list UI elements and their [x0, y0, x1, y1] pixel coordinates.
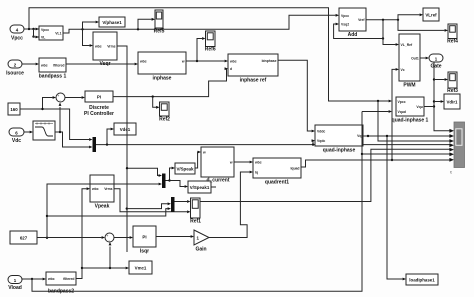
svg-text:wbc: wbc	[229, 59, 237, 63]
scope Ref3	[447, 72, 458, 94]
svg-text:Vqud: Vqud	[398, 110, 406, 114]
wire Vload to bandpass2	[22, 278, 46, 281]
svg-text:w: w	[181, 59, 185, 63]
svg-text:Out1: Out1	[411, 56, 419, 60]
wire VL1 output long line to Add	[63, 14, 339, 33]
svg-text:Vref: Vref	[358, 18, 365, 22]
svg-text:quad-inphase: quad-inphase	[323, 148, 356, 154]
svg-text:d_current: d_current	[206, 178, 229, 184]
wire Discrete PI output to inphase ref d	[113, 67, 228, 108]
wire sum2 to Isqr PI	[114, 236, 133, 239]
svg-text:Vpcc: Vpcc	[398, 100, 406, 104]
svg-text:filtered: filtered	[63, 277, 74, 281]
block PWM	[399, 34, 420, 89]
svg-text:Vpeak: Vpeak	[95, 204, 110, 210]
svg-text:Ref3: Ref3	[447, 88, 458, 94]
block V/Speak1	[188, 181, 211, 193]
wire down to loadIphase1	[386, 135, 406, 281]
block Add	[339, 8, 366, 38]
wire bandpass2 output up left column	[76, 187, 171, 278]
svg-text:Vqu: Vqu	[416, 105, 422, 109]
wire branch to mux bundle line 3	[378, 101, 454, 143]
svg-text:w: w	[202, 150, 206, 154]
svg-text:V/Speak1: V/Speak1	[190, 185, 210, 190]
svg-text:VL_Ref: VL_Ref	[401, 43, 414, 47]
wire branch to Vsqr	[83, 29, 94, 47]
wire binphase to quad-inphase Vddc	[278, 60, 315, 132]
block Vrms1	[129, 261, 152, 274]
block Gain	[194, 230, 209, 253]
wire overlay vertical crossing Vdc1	[126, 121, 128, 137]
svg-text:VL1: VL1	[55, 32, 61, 36]
block Vdc1	[114, 123, 136, 135]
svg-text:Vpcc: Vpcc	[11, 36, 23, 42]
svg-text:Add: Add	[348, 32, 358, 38]
svg-text:w: w	[229, 160, 233, 164]
scope Ref4	[447, 24, 458, 45]
svg-text:Vpcc: Vpcc	[41, 28, 49, 32]
block quadrent1	[253, 158, 301, 186]
wire mux B to Ref1	[175, 200, 191, 203]
block lowpass filter icon	[33, 121, 55, 140]
block V/Speak	[175, 163, 195, 174]
block d_current	[201, 147, 234, 184]
sum junction 1	[56, 93, 65, 103]
scope Ref5	[154, 10, 165, 35]
svg-text:Vdir1: Vdir1	[447, 99, 459, 104]
block Vsqr	[93, 32, 117, 67]
port Vpcc (4)	[10, 25, 24, 42]
block Discrete PI Controller	[84, 91, 114, 117]
svg-text:d: d	[230, 67, 232, 71]
mux B	[171, 197, 175, 212]
wire down to mux A input 2	[46, 183, 171, 239]
block inphase ref	[228, 54, 278, 84]
svg-text:Vq: Vq	[357, 134, 361, 138]
block Vdir1	[444, 94, 460, 109]
wire sum to Discrete PI	[65, 96, 85, 99]
wire Vqu output	[424, 106, 434, 108]
wire PWM Out1 to Gate	[420, 57, 429, 60]
svg-text:V/Speak: V/Speak	[176, 166, 194, 171]
svg-text:Gate: Gate	[430, 64, 441, 70]
block constant 627	[10, 231, 37, 244]
wire 627 to sum2	[37, 236, 105, 239]
svg-text:VLref: VLref	[425, 12, 437, 17]
wire Isqr PI to Gain	[156, 235, 194, 238]
wire branch to Ref5 scope	[138, 18, 155, 29]
wire Add Vref output	[366, 13, 448, 45]
svg-text:Ref1: Ref1	[190, 219, 201, 225]
scope Ref2	[159, 102, 170, 123]
svg-text:PI: PI	[97, 95, 101, 100]
svg-text:Vpcc: Vpcc	[341, 14, 349, 18]
svg-text:wbc: wbc	[47, 277, 55, 281]
block bandpass2	[46, 272, 76, 295]
block quad-inphase 1	[392, 97, 429, 124]
svg-text:Iq: Iq	[255, 170, 258, 174]
svg-text:wbc: wbc	[94, 44, 102, 48]
svg-text:Vdc1: Vdc1	[120, 127, 131, 132]
block quad-inphase	[315, 125, 363, 154]
wire Vpcc port to VL1 block	[24, 28, 39, 39]
port Isource (2)	[6, 60, 24, 77]
block inphase	[138, 52, 186, 82]
wire branch to V/Speak1	[170, 181, 189, 188]
svg-text:binphase: binphase	[262, 59, 277, 63]
svg-text:Ref5: Ref5	[154, 29, 165, 35]
block V/phase1	[99, 17, 125, 27]
svg-text:Vc: Vc	[401, 68, 405, 72]
wire branch to Vdc1	[107, 128, 114, 145]
wire up to quad-inphase1 Vqud	[362, 110, 392, 113]
wire quadrent1 output to bundle line 7	[301, 158, 454, 167]
block Vpeak	[90, 175, 114, 210]
wire V/Speak1 output stub	[211, 186, 216, 188]
block bandpass 1	[39, 58, 67, 80]
block loadIphase1	[406, 274, 438, 285]
svg-text:Vddc: Vddc	[317, 129, 325, 133]
svg-text:Vrms: Vrms	[107, 44, 115, 48]
svg-text:wbc: wbc	[254, 160, 262, 164]
wire into Add Vsq2	[334, 23, 385, 40]
block VL1	[39, 26, 63, 40]
wire Isource to bandpass 1	[22, 63, 39, 66]
wire Vpcc feedback top line to quad-inphase1	[29, 8, 392, 103]
svg-text:Vdc: Vdc	[12, 138, 21, 144]
wire bandpass 1 to inphase	[66, 63, 138, 66]
wire 160 to sum	[20, 96, 93, 141]
svg-text:quad-inphase 1: quad-inphase 1	[392, 118, 429, 124]
svg-text:Ref6: Ref6	[205, 47, 216, 53]
svg-text:inphase ref: inphase ref	[240, 78, 267, 84]
svg-text:627: 627	[20, 236, 28, 241]
svg-text:Gain: Gain	[195, 247, 206, 253]
svg-text:Isource: Isource	[6, 71, 24, 77]
svg-text:Isqr: Isqr	[140, 249, 149, 255]
svg-text:PI: PI	[142, 235, 146, 240]
svg-text:Vmc1: Vmc1	[135, 265, 147, 270]
block VLref	[423, 8, 439, 21]
wire below Gate down to Ref3 and Vdir1	[433, 62, 454, 133]
wire Vsqr output down to mux A	[117, 46, 162, 252]
svg-text:bandpass2: bandpass2	[48, 289, 74, 295]
wire Vq output bundle line 2	[363, 134, 454, 138]
port Vdc (6)	[9, 128, 24, 144]
wire d_current to quadrent1	[234, 161, 253, 164]
wire Vpeak output to Ref1 lower input	[114, 189, 191, 214]
block scope display gray	[450, 122, 464, 175]
wire branch to V/phase1	[83, 21, 100, 30]
mux 1	[93, 137, 97, 152]
scope Ref6	[205, 31, 216, 53]
svg-text:160: 160	[10, 107, 18, 112]
wire overlay crossing quad-inphase	[361, 124, 363, 147]
wire inphase output to inphase ref	[186, 37, 228, 62]
svg-text:Vrms: Vrms	[104, 187, 112, 191]
sum junction 2	[105, 233, 114, 243]
wire branch to quad-inphase Vqdc	[312, 139, 316, 144]
svg-text:Vload: Vload	[8, 285, 22, 291]
mux A	[162, 174, 166, 189]
svg-text:Vsqr: Vsqr	[99, 61, 110, 67]
svg-text:inphase: inphase	[153, 76, 172, 82]
svg-text:Ref2: Ref2	[159, 117, 170, 123]
svg-text:filtered: filtered	[53, 63, 64, 67]
svg-text:wbc: wbc	[91, 187, 99, 191]
wire Vload bottom line bundle 6	[31, 112, 454, 292]
svg-text:bandpass 1: bandpass 1	[39, 74, 67, 80]
scope Ref1	[190, 198, 201, 225]
port Vload (1)	[8, 276, 22, 292]
wire mux B long line to bundle line 5	[200, 148, 454, 202]
wire overlay crossing Vpeak	[88, 183, 116, 185]
svg-text:Iquad: Iquad	[290, 166, 299, 170]
svg-text:PI Controller: PI Controller	[84, 111, 114, 117]
svg-text:PWM: PWM	[403, 83, 415, 89]
wire into PWM Vc	[391, 68, 399, 161]
svg-text:wbc: wbc	[40, 63, 48, 67]
wire mux output long line bundle 4	[96, 143, 455, 147]
wire V/Speak to d_current	[195, 151, 201, 168]
svg-text:loadIphase1: loadIphase1	[409, 278, 435, 283]
svg-text:wbc: wbc	[139, 59, 147, 63]
svg-text:Vqdc: Vqdc	[317, 139, 325, 143]
svg-text:VL: VL	[41, 36, 45, 40]
wire mux A to V/Speak	[166, 167, 176, 182]
block constant 160	[8, 103, 20, 115]
svg-text:Ref4: Ref4	[447, 39, 458, 45]
wire Gain output up to quadrent1 Iq	[209, 171, 253, 238]
svg-text:Vsq2: Vsq2	[341, 22, 349, 26]
svg-text:V/phase1: V/phase1	[102, 20, 122, 25]
port Gate (1)	[429, 54, 443, 70]
svg-text:quadrent1: quadrent1	[265, 180, 289, 186]
wire Vdc port to filter	[24, 131, 33, 134]
wire filter output to sum and mux	[55, 103, 93, 149]
block PI Isqr	[133, 226, 156, 255]
